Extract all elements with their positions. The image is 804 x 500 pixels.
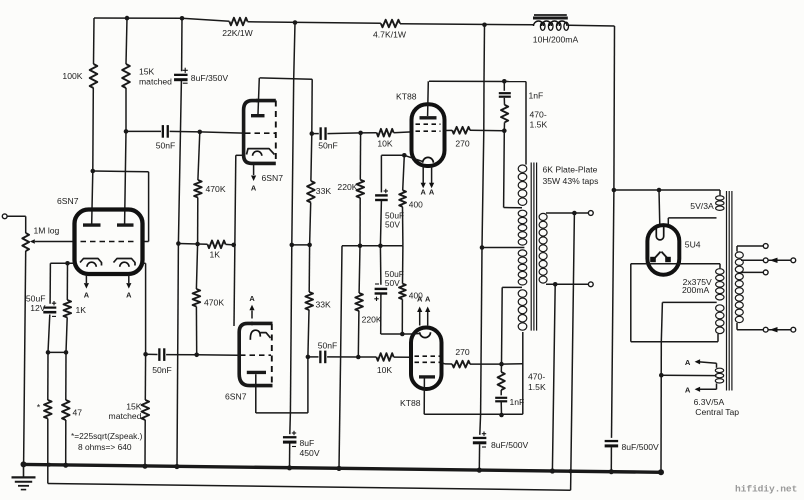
transformer OPT primary coil 1 (518, 165, 527, 172)
resistor 220K upper (357, 180, 365, 198)
node 1K junction (195, 242, 200, 247)
wire 5U4 plates to HV (631, 263, 720, 265)
wire to 15K matched lower (144, 354, 146, 400)
wire to star resistor (47, 352, 49, 400)
wire to 33K upper (310, 134, 313, 181)
wire V4 plate lead (423, 379, 425, 415)
wire resistor down (503, 122, 505, 130)
svg-text:*=225sqrt(Zspeak.): *=225sqrt(Zspeak.) (71, 431, 143, 441)
capacitor 1nF lower (495, 397, 507, 399)
wire rail right drop (613, 26, 616, 190)
wire 8uF/350V down (178, 81, 181, 244)
resistor 220K lower (355, 293, 363, 311)
svg-text:matched: matched (139, 76, 172, 86)
tube V1 right cathode (114, 259, 136, 266)
wire down to ground bus (177, 244, 178, 467)
svg-text:50nF: 50nF (318, 140, 338, 150)
svg-text:A: A (685, 385, 691, 394)
tube V2a grid dashes (245, 132, 275, 134)
wire midpoint ground drop (341, 246, 342, 357)
capacitor 50uF/50V upper (375, 194, 388, 196)
wire to driver upper grid (200, 132, 244, 133)
wire 100K to plate node (92, 88, 95, 171)
wire 50uF to cathode wire (380, 294, 382, 334)
wire to 50nF second (312, 133, 319, 135)
svg-text:470-: 470- (528, 372, 545, 382)
tube 6SN7 V1 envelope (75, 210, 143, 275)
wire lower plate loop (307, 357, 309, 413)
resistor 10K lower (376, 353, 393, 361)
wire 1K left lead (178, 243, 207, 246)
resistor 33K upper (307, 181, 315, 203)
wire grid node to 220K upper (359, 133, 361, 180)
wire mains line 1 (741, 259, 764, 261)
svg-text:A: A (421, 188, 427, 197)
capacitor 50nF first (162, 125, 164, 138)
capacitor 8uF/500V second (605, 440, 619, 442)
svg-text:4.7K/1W: 4.7K/1W (373, 30, 407, 40)
wire to 50uF lower (379, 246, 382, 285)
node cathode link (231, 243, 236, 248)
wire V2a cathode link (236, 154, 244, 156)
wire 50nF to lower grid node (166, 354, 197, 356)
wire to 1nF upper (503, 81, 505, 91)
wire mains tap 2 (741, 271, 764, 273)
node left plate junction (91, 169, 96, 174)
wire 6.3V center tap (661, 374, 716, 376)
svg-text:270: 270 (455, 139, 470, 149)
svg-text:50V: 50V (385, 220, 400, 230)
node upper driver output (310, 131, 315, 136)
resistor 270 lower (452, 361, 470, 368)
wire V2a plate lead (258, 78, 259, 114)
polarity 8uF/500V first (482, 433, 486, 435)
wire 15K to ground bus (144, 420, 146, 466)
wire B+ right to 8uF (612, 190, 614, 438)
polarity 8uF/350V (183, 69, 188, 71)
svg-text:6K Plate-Plate: 6K Plate-Plate (543, 165, 598, 175)
wire to 5V winding (659, 189, 720, 191)
svg-text:6SN7: 6SN7 (225, 392, 247, 402)
svg-text:8 ohms=> 640: 8 ohms=> 640 (78, 442, 132, 452)
resistor 15K matched upper (122, 64, 130, 88)
wire lower cathode left (381, 333, 403, 335)
wire 8uF/450V to ground (289, 444, 291, 468)
svg-text:200mA: 200mA (682, 285, 709, 295)
resistor * feedback (44, 400, 52, 419)
wire 43% tap lower (502, 286, 522, 288)
polarity 50uF/12V (52, 302, 56, 304)
svg-text:50nF: 50nF (156, 140, 176, 150)
wire tap upper (504, 207, 522, 209)
tube V3 cathode (423, 157, 434, 162)
wire B+ top rail (94, 17, 182, 19)
wire center tap to ground (660, 342, 662, 473)
node snubber upper (502, 79, 507, 84)
capacitor 8uF/350V (174, 74, 188, 76)
wire B+ main vertical (483, 25, 486, 82)
svg-text:22K/1W: 22K/1W (222, 28, 253, 38)
node 50nF lower tap (143, 352, 148, 357)
tube V2b dashed side (271, 324, 273, 386)
wire 10K to KT88 lower grid (394, 356, 411, 358)
wire 50uF down (48, 315, 50, 353)
node top rail junctions (125, 16, 130, 21)
wire to 43% tap upper (503, 131, 506, 208)
wire secondary bottom (546, 283, 588, 285)
capacitor 50uF/50V lower (375, 288, 388, 290)
svg-text:1K: 1K (76, 305, 87, 315)
wire 400 lower top (402, 246, 404, 284)
wire 50nF to lower KT88 branch (327, 356, 358, 358)
wire V4 cathode exit (411, 333, 420, 336)
svg-text:A: A (425, 295, 431, 304)
wire to 470-1.5K lower (500, 364, 502, 372)
resistor 10K upper (377, 129, 394, 137)
wire 1nF down (500, 401, 502, 415)
wire 470K to lower grid node (195, 307, 197, 355)
wire to 50nF fourth (308, 356, 319, 358)
node KT88 lower cathode (400, 332, 405, 337)
tube V4 grid dashes (415, 355, 440, 357)
node rectifier output (612, 188, 617, 193)
node 220K tap upper (358, 131, 363, 136)
wire 8uF to ground bus (478, 444, 480, 470)
svg-text:270: 270 (455, 347, 470, 357)
heater arrow V1 left (85, 275, 87, 284)
transformer HV winding lower (716, 305, 724, 312)
capacitor 50nF fourth (319, 351, 321, 364)
svg-text:470K: 470K (206, 184, 226, 194)
terminal input jack (2, 214, 7, 219)
node ground bus junctions (21, 461, 27, 467)
wire to 10K (361, 132, 377, 134)
resistor 15K matched lower (142, 400, 150, 420)
svg-text:50uF: 50uF (26, 294, 46, 304)
svg-text:400: 400 (409, 199, 423, 209)
node 1K wire left (176, 241, 181, 246)
svg-text:50nF: 50nF (318, 341, 338, 351)
tube V1 left cathode (80, 259, 102, 266)
wire to 50nF lower (146, 353, 158, 355)
polarity 8uF/450V (292, 432, 296, 434)
capacitor 8uF/500V first (473, 437, 487, 439)
svg-text:12V: 12V (30, 303, 46, 313)
svg-text:1.5K: 1.5K (528, 382, 546, 392)
tube V2b grid dashes (240, 354, 271, 356)
wire cathode to 400 (403, 155, 405, 190)
svg-text:220K: 220K (337, 182, 357, 192)
terminal output hot (588, 211, 593, 216)
wire 470K to 1K node (197, 198, 199, 245)
svg-text:Central Tap: Central Tap (695, 407, 739, 417)
tube V3 grid dashes (416, 130, 441, 132)
transformer HV winding upper (716, 269, 724, 275)
node feedback tap (572, 211, 577, 216)
svg-text:15K: 15K (139, 67, 155, 77)
wire 1nF to resistor (503, 98, 505, 105)
svg-text:8uF/500V: 8uF/500V (491, 440, 529, 450)
svg-text:5U4: 5U4 (685, 240, 701, 250)
wire V2a plate to coupling (260, 78, 313, 79)
transformer 6.3V winding (715, 368, 723, 372)
wire V3 plate lead (427, 81, 430, 116)
choke core 10H (534, 14, 567, 16)
wire rail to 15K (126, 18, 127, 64)
wire 10K to KT88 grid (394, 131, 412, 134)
resistor 470K upper (194, 180, 202, 198)
node B+ rail tap (293, 20, 298, 25)
svg-text:A: A (417, 295, 423, 304)
resistor 400 upper (399, 190, 406, 207)
svg-text:47: 47 (73, 408, 83, 418)
capacitor 50uF/12V (43, 307, 56, 309)
tube V2a envelope (244, 101, 276, 164)
wire mains tap 1 (736, 246, 738, 252)
wire 400 down (402, 207, 404, 246)
tube V2a cathode (247, 149, 275, 155)
svg-text:220K: 220K (362, 315, 382, 325)
svg-text:6SN7: 6SN7 (57, 196, 79, 206)
wire pot to ground (24, 251, 26, 464)
resistor 470K lower (193, 289, 201, 307)
wire 220K upper lead (359, 198, 361, 246)
transformer PT core (726, 191, 728, 391)
wire left plate to right grid (93, 170, 149, 173)
wire input (7, 215, 26, 217)
tube V4 cathode (420, 332, 431, 337)
node 1K cathode tap (65, 261, 70, 266)
svg-text:matched: matched (109, 411, 142, 421)
wire 1K right lead (226, 243, 234, 246)
tube V4 plate bar (419, 375, 435, 378)
tube V3 screen dashes (416, 123, 441, 125)
node 5U4 filament (657, 188, 662, 193)
node screen tap lower (499, 362, 504, 367)
svg-text:KT88: KT88 (396, 92, 417, 102)
wire B+ jumper (292, 244, 310, 246)
heater arrow V3 right (431, 166, 433, 183)
svg-text:1M log: 1M log (34, 226, 60, 236)
heater arrow V4 right (427, 312, 429, 326)
wire 33K to lower output node (308, 310, 309, 357)
svg-text:A: A (126, 291, 132, 300)
resistor 4.7K/1W (381, 20, 400, 28)
svg-text:33K: 33K (316, 300, 332, 310)
wire 270 to tap chain lower (470, 363, 502, 365)
wire mains line 2 (736, 323, 738, 330)
wire 50uF down (380, 201, 381, 246)
wire V4 screen lead (442, 362, 445, 364)
tube V4 screen dashes (415, 361, 440, 363)
heater arrow V1 right (128, 275, 130, 284)
transformer OPT primary coil 4 (518, 290, 527, 297)
wire KT88 upper cathode to 50uF (380, 155, 382, 192)
terminal output common (588, 282, 593, 287)
node secondary ground tap (553, 282, 558, 287)
ground symbol (23, 464, 25, 476)
wire to 5U4 (614, 189, 659, 191)
svg-text:470K: 470K (204, 298, 224, 308)
wire cathode bus mid / node 50uF top (360, 245, 380, 247)
node 1nF lower junction (499, 413, 504, 418)
wire 6.3V top + heater A (716, 363, 718, 368)
wire B+ to 8uF/450V (290, 245, 291, 413)
wire to primary bottom lead (502, 363, 523, 365)
tube 5U4 anode right (661, 252, 668, 260)
node 220K tap lower (356, 355, 361, 360)
wire 270 to tap chain (470, 129, 504, 131)
transformer OPT core (530, 163, 532, 331)
wire pot wiper to grid (30, 239, 35, 244)
wire rail to 8uF/350V (181, 18, 183, 71)
wire 220K lower lead (357, 311, 360, 357)
svg-text:10H/200mA: 10H/200mA (533, 35, 579, 45)
svg-text:A: A (251, 184, 257, 193)
tube V2b plate bar (247, 371, 266, 374)
wire 8uF second to ground (610, 447, 612, 471)
wire HV center tap (662, 301, 716, 303)
wire cathode bus left / node 220K mid (342, 245, 360, 247)
svg-text:1.5K: 1.5K (530, 120, 548, 130)
wire B+ drop (294, 23, 295, 80)
tube V3 plate bar (420, 116, 437, 119)
svg-text:A: A (429, 188, 435, 197)
wire HV bottom (717, 334, 719, 342)
node driver lower grid (194, 353, 199, 358)
wire secondary to ground (552, 284, 555, 471)
wire V3 screen lead (445, 129, 453, 131)
svg-text:A: A (249, 294, 255, 303)
wire KT88 lower plate to OPT (424, 413, 523, 415)
svg-text:8uF/500V: 8uF/500V (622, 442, 660, 452)
tube 5U4 anode left (653, 252, 660, 260)
wire 47 to ground (65, 420, 67, 465)
tube KT88 V4 envelope (411, 328, 442, 390)
tube KT88 V3 envelope (412, 104, 445, 166)
tube V2b envelope (239, 323, 272, 385)
wire 5V return to 5U4 (668, 217, 716, 219)
svg-text:50nF: 50nF (152, 365, 172, 375)
svg-text:6.3V/5A: 6.3V/5A (694, 397, 725, 407)
node B+ jumper left (290, 243, 295, 248)
wire to 1K cathode (66, 263, 68, 300)
wire resistor to 1nF lower (500, 390, 502, 395)
capacitor 50nF second (319, 127, 321, 140)
tube 5U4 filament (656, 227, 663, 240)
svg-text:50V: 50V (385, 278, 400, 288)
transformer OPT primary coil 3 (518, 250, 527, 256)
svg-text:10K: 10K (377, 138, 393, 148)
node B+ center tap (480, 245, 485, 250)
transformer OPT primary coil 2 (518, 210, 527, 216)
inductor choke 10H/200mA coil (534, 21, 544, 26)
tube V2b cathode (250, 330, 260, 340)
wire 15K to coupling node (125, 88, 127, 131)
wire V2b plate lead (255, 374, 257, 413)
wire cathode to 50uF (381, 154, 404, 156)
resistor 47 (62, 400, 70, 420)
resistor 270 upper (452, 127, 470, 134)
wire to 50nF upper (126, 130, 161, 132)
svg-text:*: * (37, 403, 41, 413)
wire secondary top (546, 212, 588, 214)
wire V1 right cathode down (142, 262, 145, 264)
node screen tap upper (502, 128, 507, 133)
resistor 1K cathode (64, 300, 72, 318)
wire to driver lower grid (197, 354, 239, 356)
wire KT88 upper plate to OPT (429, 80, 526, 82)
polarity 50uF lower (375, 283, 379, 285)
wire cathode bottom link (48, 351, 66, 353)
node driver upper grid (198, 130, 203, 135)
wire to tube1 right plate (125, 131, 126, 223)
wire 50nF to KT88 grid branch (327, 132, 360, 135)
tube V1 anode plates (83, 223, 101, 226)
node lower driver output (306, 355, 311, 360)
transformer 5V winding (716, 196, 724, 200)
resistor 22K/1W (229, 18, 247, 26)
wire cathode to tube (402, 333, 411, 335)
wire 6.3V bottom + heater A (716, 383, 718, 389)
capacitor 50nF third (158, 348, 160, 361)
resistor 33K lower (305, 292, 313, 310)
svg-text:KT88: KT88 (400, 398, 421, 408)
wire 50nF to grid node (170, 130, 200, 133)
wire to 33K lower (308, 245, 310, 292)
svg-text:1K: 1K (210, 250, 221, 260)
wire cathode bus right (380, 245, 403, 247)
svg-text:15K: 15K (126, 401, 142, 411)
wire OPT center tap (482, 247, 524, 249)
wire 1K down (66, 318, 67, 353)
tube 5U4 envelope (647, 225, 679, 275)
resistor 470-1.5K lower (498, 372, 505, 390)
wire V1 left cathode out (50, 262, 74, 264)
wire to 220K lower (358, 246, 361, 293)
svg-text:470-: 470- (530, 110, 547, 120)
node 50nF input (124, 129, 129, 134)
wire ground bus (24, 464, 662, 472)
heater arrow V2b (251, 311, 253, 319)
resistor 1K interstage (208, 241, 226, 249)
wire grid node to 470K (198, 132, 200, 180)
transformer OPT secondary coil (539, 213, 547, 220)
resistor 100K (90, 64, 98, 88)
wire 400 lower lead (401, 299, 403, 334)
node 33K midpoint (307, 243, 312, 248)
potentiometer 1M log (22, 233, 29, 251)
wire HV top lead (719, 264, 721, 269)
wire 33K to B+ node (310, 203, 311, 245)
capacitor 8uF/450V (283, 436, 297, 438)
svg-text:8uF: 8uF (300, 438, 315, 448)
svg-text:1nF: 1nF (529, 91, 544, 101)
transformer PT primary (735, 252, 743, 258)
wire global feedback (571, 213, 575, 490)
wire to 47 resistor (65, 352, 67, 400)
node KT88 upper cathode (402, 153, 407, 158)
svg-text:8uF/350V: 8uF/350V (191, 73, 229, 83)
heater arrow V4 left (419, 312, 421, 326)
resistor 470-1.5K upper (501, 105, 508, 122)
svg-text:10K: 10K (377, 365, 393, 375)
polarity 50uF upper (384, 190, 388, 192)
node B+ choke output (482, 23, 487, 28)
svg-text:6SN7: 6SN7 (262, 173, 284, 183)
svg-text:hifidiy.net: hifidiy.net (735, 484, 797, 495)
svg-text:35W 43% taps: 35W 43% taps (543, 176, 599, 186)
